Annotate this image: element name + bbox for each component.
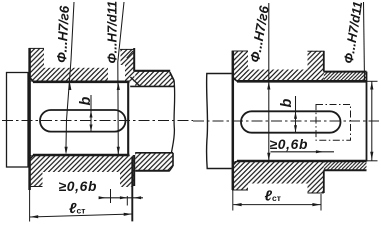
svg-text:b: b (78, 97, 94, 106)
svg-text:b: b (279, 99, 295, 108)
svg-text:≥0,6b: ≥0,6b (59, 179, 98, 194)
svg-text:Ф...Н7/г6: Ф...Н7/г6 (54, 5, 72, 63)
svg-text:Ф...Н7/d11: Ф...Н7/d11 (105, 1, 120, 64)
svg-text:≥0,6b: ≥0,6b (270, 137, 309, 152)
